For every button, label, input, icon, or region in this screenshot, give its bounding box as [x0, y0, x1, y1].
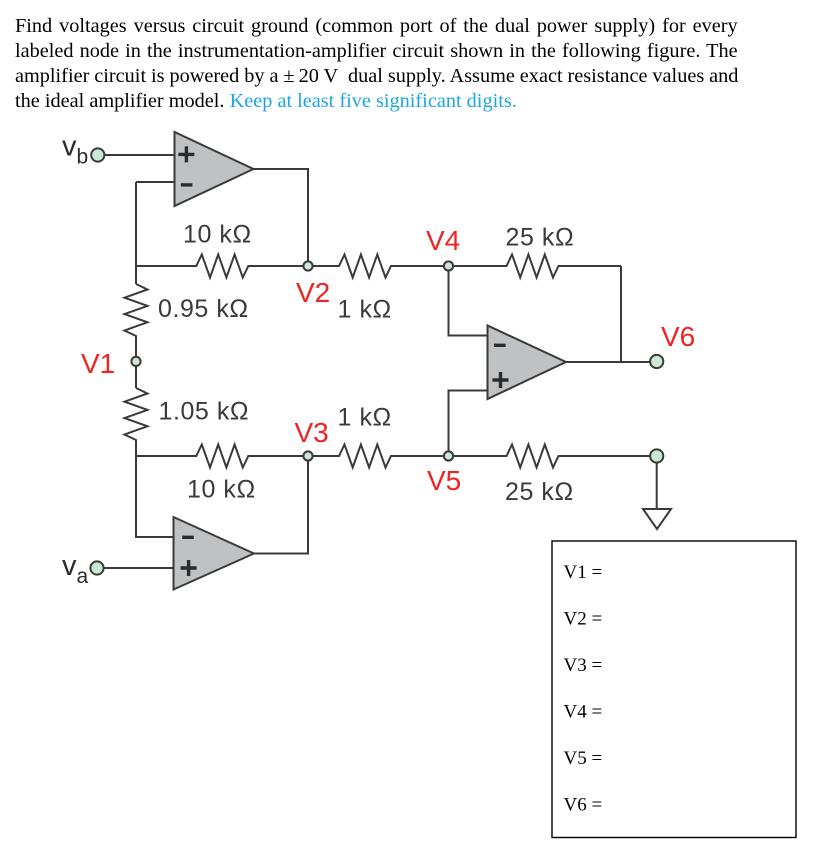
answer box [552, 541, 796, 838]
svg-text:0.95 kΩ: 0.95 kΩ [158, 295, 249, 323]
op-amp U3 [488, 326, 567, 400]
wire: Vb to U1 plus input [104, 154, 175, 156]
svg-text:vb: vb [62, 131, 88, 169]
terminal Vb [91, 148, 104, 161]
wire: 25k feedback down to output [620, 266, 622, 362]
wire: U3 output to V6 [566, 361, 650, 363]
terminal Va [90, 561, 103, 574]
svg-text:V5 =: V5 = [564, 748, 603, 769]
wire: op-amp U1 minus input [136, 181, 175, 183]
node V4 [444, 261, 453, 270]
resistor R 10k bottom [136, 445, 308, 468]
node V3 [303, 451, 312, 460]
svg-text:10 kΩ: 10 kΩ [187, 476, 256, 504]
svg-text:V1: V1 [81, 348, 115, 379]
resistor R 1k bottom [308, 445, 449, 468]
node V2 [303, 261, 312, 270]
svg-text:1 kΩ: 1 kΩ [338, 295, 392, 323]
terminal V6 [650, 355, 663, 368]
resistor R 25k top [449, 255, 622, 278]
resistor R 1.05k vertical [125, 388, 148, 456]
wire: U1 output to V2 [254, 169, 309, 266]
svg-text:25 kΩ: 25 kΩ [506, 224, 575, 252]
terminal ground [650, 449, 663, 462]
svg-text:V6 =: V6 = [564, 795, 603, 816]
wire: Va to U2 plus input [104, 567, 174, 569]
resistor R 0.95k vertical [125, 284, 148, 356]
svg-text:va: va [62, 550, 89, 588]
node V5 [444, 451, 453, 460]
ground [643, 509, 671, 529]
wire: V4 down to U3 minus [449, 266, 488, 336]
svg-text:V2 =: V2 = [564, 609, 603, 630]
svg-text:V3: V3 [295, 417, 329, 448]
resistor R 1k top [308, 255, 449, 278]
wire: V5 up to U3 plus [449, 391, 488, 457]
svg-text:V6: V6 [661, 321, 695, 352]
svg-text:V2: V2 [296, 277, 330, 308]
wire: V1 to 1.05k [135, 366, 137, 388]
svg-text:V4: V4 [426, 225, 460, 256]
svg-text:V5: V5 [427, 465, 461, 496]
op-amp U2 [174, 517, 255, 590]
wire: left rail upper [135, 182, 137, 284]
svg-text:25 kΩ: 25 kΩ [505, 478, 574, 506]
wire: left rail lower to U2 minus [136, 456, 174, 537]
resistor R 25k bottom [449, 445, 651, 468]
wire: U2 output to V3 [254, 456, 308, 554]
svg-text:V1 =: V1 = [564, 562, 603, 583]
svg-text:1.05 kΩ: 1.05 kΩ [159, 398, 250, 426]
svg-text:1 kΩ: 1 kΩ [338, 404, 392, 432]
node V1 [131, 357, 140, 366]
svg-text:V4 =: V4 = [564, 702, 603, 723]
wire: ground stem [656, 463, 658, 509]
svg-text:V3 =: V3 = [564, 655, 603, 676]
op-amp U1 [175, 132, 254, 206]
svg-text:10 kΩ: 10 kΩ [183, 221, 252, 249]
resistor R 10k top [136, 255, 308, 278]
